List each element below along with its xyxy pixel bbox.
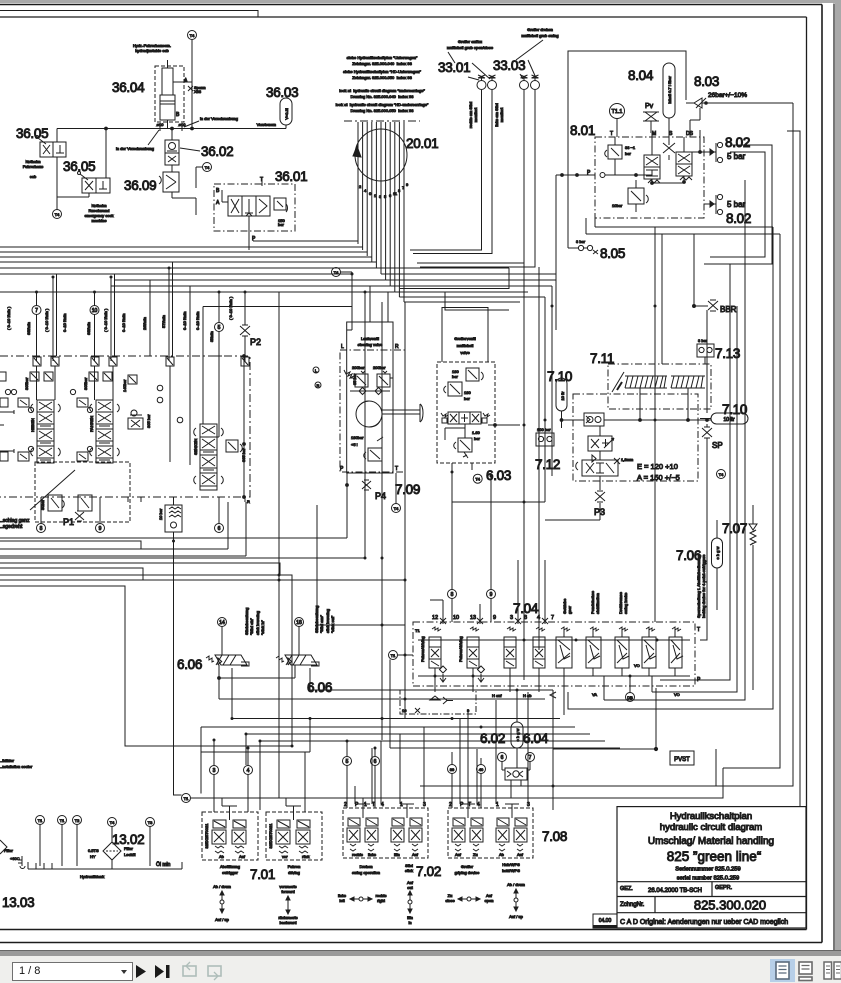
wire T4 drop — [191, 40, 193, 129]
port numbers row — [432, 615, 554, 621]
solenoid unit 8 — [642, 627, 656, 676]
node 10 — [90, 292, 99, 356]
accumulator 7.10 left — [556, 378, 567, 420]
relief 33-1bar — [605, 137, 636, 175]
brake unit left — [625, 376, 667, 388]
drawing number row — [620, 898, 766, 913]
wire right A — [540, 103, 793, 786]
wire right B — [787, 131, 800, 806]
shuttle valve 6.04 — [505, 768, 527, 798]
gauge group 8.05 — [568, 239, 598, 254]
label 36.02 — [180, 144, 233, 159]
node 39 — [448, 752, 457, 808]
accumulator 8.04 — [663, 63, 675, 133]
next page button — [136, 965, 146, 978]
node 3 — [210, 740, 219, 812]
sheet inner frame bottom — [0, 929, 807, 931]
accumulator 36.03 — [280, 98, 292, 129]
node T3 — [146, 818, 155, 867]
pilot group grab 7.08 — [448, 802, 533, 858]
node T4 brake — [717, 470, 726, 479]
gauge pair 7.13 — [697, 338, 714, 364]
label Greiferventil — [454, 336, 476, 355]
tank line — [28, 862, 182, 869]
node marks mid — [313, 367, 321, 388]
bus wires right of pump — [376, 268, 556, 302]
node 6 — [215, 502, 224, 533]
left cut components — [0, 372, 14, 461]
sheet outer border bottom — [0, 942, 822, 944]
valve 36.05 machine — [57, 129, 110, 198]
port SP — [702, 424, 723, 450]
node T4 steering — [392, 504, 401, 513]
unit 8.01 outer box — [568, 51, 686, 248]
label Stielabsenkung right — [314, 606, 335, 633]
approval row — [620, 885, 733, 894]
wire P supply — [556, 173, 685, 331]
label Stiel stick — [405, 863, 413, 873]
arrows ab auf — [213, 884, 231, 922]
wire L riser — [347, 274, 388, 330]
label Greifer — [455, 864, 480, 875]
riser mid right — [545, 227, 662, 622]
block top port ticks — [34, 356, 246, 361]
label o10 fittings — [157, 122, 187, 131]
solenoid unit 5 — [556, 627, 572, 676]
filter left — [0, 840, 25, 869]
spool section 1 — [30, 400, 60, 463]
label Hydr-Fahrerhausern — [133, 43, 171, 53]
wire U loop — [445, 292, 509, 310]
node T1 tank a — [36, 816, 45, 867]
steering unit box — [340, 322, 405, 473]
riser pair b — [111, 274, 115, 356]
swing arrows — [338, 893, 386, 903]
PVST box — [670, 751, 694, 765]
relief at block bottom — [158, 497, 182, 541]
label 33.03 — [493, 40, 543, 79]
label 8.02 upper — [725, 135, 750, 161]
manifold box 7.04 — [413, 622, 701, 686]
label oil cooler — [0, 758, 33, 769]
rotate icon 2 (disabled) — [208, 966, 221, 980]
wire BBR — [693, 234, 709, 308]
parking valve box 7.12 — [573, 394, 698, 481]
relief 180bar a — [452, 368, 483, 381]
label 180bar — [351, 435, 383, 447]
page combo box 1/8 — [12, 962, 133, 981]
arrows vorwaerts — [278, 884, 297, 925]
port P3 — [545, 491, 605, 520]
solenoid valve 7.12 — [588, 426, 614, 451]
relief top 3 — [122, 375, 137, 392]
riser f — [317, 505, 405, 625]
node 5b — [343, 741, 352, 808]
solenoid unit 3 — [504, 627, 516, 676]
wire PVST drop — [553, 688, 658, 810]
node T4 below 36.05 — [53, 210, 62, 219]
pilot riser wires — [222, 692, 528, 812]
long riser e — [278, 292, 280, 798]
revision cell 04.00 — [593, 914, 617, 928]
wire right E — [604, 180, 745, 700]
spring 35bar — [344, 370, 357, 385]
pump riser lines — [358, 122, 404, 302]
check row mid — [128, 410, 151, 429]
spool section 3 — [193, 424, 223, 490]
cock 33.01 left — [477, 75, 486, 90]
solenoid unit 9 — [669, 627, 683, 676]
pilot group swing/stick 7.02 — [343, 802, 428, 858]
valve 6.06 left — [206, 655, 249, 666]
lower distribution wires — [201, 660, 620, 811]
top left wire — [0, 11, 258, 18]
continuous view icon — [799, 962, 812, 981]
wire bottom long b — [191, 768, 723, 798]
valve block 36.01 — [214, 177, 295, 250]
solenoid unit 1 — [420, 627, 447, 682]
label 33.01 — [438, 52, 490, 80]
manifold bottom labels — [492, 692, 680, 698]
sheet inner frame top — [0, 16, 807, 18]
node DB — [626, 693, 635, 702]
node 7c — [526, 753, 535, 771]
valve 6.06 right — [276, 655, 319, 666]
manifold rails — [418, 640, 690, 676]
ports P T — [340, 466, 398, 538]
node T4 top — [188, 31, 197, 40]
sheet outer border right — [821, 5, 823, 943]
note siehe Hydraulikschaltplan — [336, 55, 429, 113]
bottom bus wires — [0, 502, 405, 795]
pump 20.01 circle — [353, 129, 407, 181]
boundary dash line — [344, 120, 420, 122]
hold arrows — [507, 882, 525, 919]
solenoid unit 7 — [615, 627, 629, 676]
label Drehen — [352, 864, 380, 875]
node T2 — [73, 816, 82, 867]
pilot check sub box — [400, 690, 476, 714]
wire right F — [652, 306, 737, 692]
stick arrows — [407, 880, 414, 925]
accumulator 6.02 — [511, 690, 523, 768]
node 40 — [477, 758, 486, 808]
node T4 tank — [108, 818, 117, 843]
small circles in block — [157, 385, 183, 423]
valve 36.05 cab — [36, 129, 67, 210]
valve manifold 8.01 — [587, 131, 704, 218]
label anschlag ganz — [0, 470, 75, 530]
node T4 bus — [332, 268, 353, 277]
labels rotated above manifold — [562, 555, 706, 618]
port blocks on top edge — [33, 357, 249, 366]
node 18 — [295, 618, 304, 656]
check valve 7.07 — [749, 505, 757, 690]
shuttle valve — [584, 413, 604, 426]
label Greifer auf/zu — [447, 39, 494, 50]
control block boundary — [0, 356, 250, 497]
relief 160bar — [445, 424, 481, 458]
node 4 — [244, 748, 253, 812]
axle brake box 7.11 — [608, 364, 711, 409]
label Abstuetzung — [220, 864, 240, 875]
node T4 mid — [196, 163, 212, 189]
port BBR — [708, 300, 737, 314]
relief top 2 — [83, 372, 112, 390]
node 8b — [448, 472, 457, 622]
node 9 — [96, 502, 105, 533]
bottom toolbar — [0, 956, 841, 983]
wire riser 33.03 left — [417, 90, 524, 263]
node 14 — [218, 618, 227, 656]
wire DS riser — [690, 108, 704, 153]
wires 6.06 — [218, 665, 553, 719]
node 7 — [32, 292, 41, 356]
section2 pilot caps — [70, 389, 92, 461]
section1 pilot caps — [11, 389, 33, 461]
manifold unit drops — [435, 663, 652, 715]
solenoid unit 2 — [458, 627, 485, 682]
wire 8.02 nest inner — [710, 152, 765, 257]
label in der Verschraubung right — [184, 116, 238, 127]
label in der Verschraubung left — [116, 130, 159, 151]
last page button — [155, 965, 170, 978]
node 5 — [215, 292, 224, 356]
main pilot wire — [57, 127, 286, 130]
grab arrows — [445, 893, 493, 903]
cock 33.03 right — [531, 75, 540, 90]
filter 13.02 — [88, 842, 136, 869]
node 9b — [487, 476, 496, 622]
port P4 — [346, 480, 386, 501]
solenoid valve 8.01b — [676, 137, 692, 182]
wire right D — [568, 227, 773, 709]
brake unit right — [671, 376, 705, 388]
node 6b — [371, 748, 380, 808]
label Greifer drehen — [521, 27, 558, 38]
ports 8.02 upper — [704, 142, 723, 162]
check valve 8.03 26bar — [686, 98, 793, 108]
spool section 2 — [89, 400, 119, 463]
wire right H — [660, 264, 730, 680]
label Lenkventil — [341, 336, 399, 350]
cock 33.01 right — [488, 75, 497, 90]
title texts — [648, 811, 774, 882]
steering motor — [356, 401, 423, 427]
wire 8.02 nest outer — [704, 145, 772, 264]
node 8 — [37, 502, 46, 533]
port P1 — [63, 511, 84, 527]
cylinder 36.04 — [155, 60, 206, 129]
paper right edge line — [833, 4, 835, 951]
riser d — [150, 280, 352, 356]
label 8.02 lower — [726, 200, 751, 226]
pilot group 7.01 outrigger — [202, 806, 258, 860]
node T1 manifold — [389, 651, 414, 660]
node T4 grab — [473, 474, 482, 483]
label Hub/WPS — [502, 862, 520, 873]
gauge Pv — [643, 103, 659, 133]
grab valve wires — [452, 424, 545, 502]
label Nothahn Fahrerhaus cab — [23, 159, 43, 179]
top bus wires left — [0, 236, 395, 292]
node T1 bus — [182, 794, 191, 803]
wire M S drop — [652, 133, 675, 160]
label E A values — [637, 462, 680, 482]
solenoid unit 6 — [586, 627, 601, 676]
solenoid valve 8.01a — [644, 137, 660, 183]
port P2 — [240, 292, 261, 356]
accumulator 7.06 — [712, 520, 723, 610]
wire brake supply — [560, 388, 711, 428]
node 6c — [498, 753, 507, 771]
flow labels rotated — [6, 296, 233, 342]
check diamonds — [350, 378, 393, 395]
relief sec3 — [226, 440, 246, 462]
wire right C — [723, 234, 780, 768]
label Nothahn Rueckwand — [84, 203, 113, 223]
wire manifold bottom bus — [586, 218, 780, 234]
solenoid unit 4 — [533, 627, 545, 676]
port x marks — [430, 560, 548, 624]
inner dashed sub box — [35, 462, 130, 522]
pilot group driving — [266, 806, 322, 860]
check valve 36.02 — [165, 129, 179, 173]
label oil min — [156, 861, 171, 868]
gauge T1.1 — [610, 104, 625, 138]
node T1 tank b — [58, 816, 67, 867]
valve 36.09 — [159, 172, 196, 215]
relief 10bar — [612, 180, 648, 212]
relief 180bar b — [444, 382, 472, 401]
brake valve lower — [576, 451, 618, 490]
relief top 1 — [24, 372, 53, 390]
block bottom ticks — [41, 497, 245, 502]
wire риser 33.01 left — [410, 90, 482, 250]
sheet inner frame right — [806, 17, 808, 930]
wire P2 inner drop — [243, 355, 250, 504]
label Stielabsenkung left — [244, 608, 265, 635]
label 200bar — [352, 365, 386, 370]
relief 200bar right — [377, 371, 390, 387]
pump port digits — [359, 182, 409, 199]
ports 8.02 lower — [704, 194, 723, 214]
long mid risers — [365, 263, 539, 740]
orifice 1.8mm — [614, 457, 634, 464]
wire right G — [700, 310, 707, 640]
riser pair c — [169, 262, 173, 356]
gauge pair 100bar — [536, 425, 554, 452]
title block box — [617, 807, 806, 928]
relief 200bar left — [355, 371, 368, 387]
wire bottom long a — [420, 749, 716, 786]
wire riser 33.01 right — [413, 90, 492, 254]
riser pair a — [53, 274, 57, 356]
wire riser 33.03 right — [420, 90, 535, 267]
grab valve outer box — [437, 308, 495, 464]
cock 33.03 left — [520, 75, 529, 90]
relief 180bar — [364, 448, 382, 461]
rotate icon 1 (disabled) — [183, 962, 196, 976]
single page view icon (selected) — [770, 959, 795, 982]
block inner risers — [37, 356, 220, 465]
accumulator 7.10 right — [700, 413, 748, 424]
toolbar grey strip — [0, 950, 841, 957]
facing pages icon — [824, 962, 841, 979]
pilot valve grab — [441, 412, 490, 424]
sheet outer border top — [0, 4, 822, 6]
label Fahren — [288, 864, 301, 875]
